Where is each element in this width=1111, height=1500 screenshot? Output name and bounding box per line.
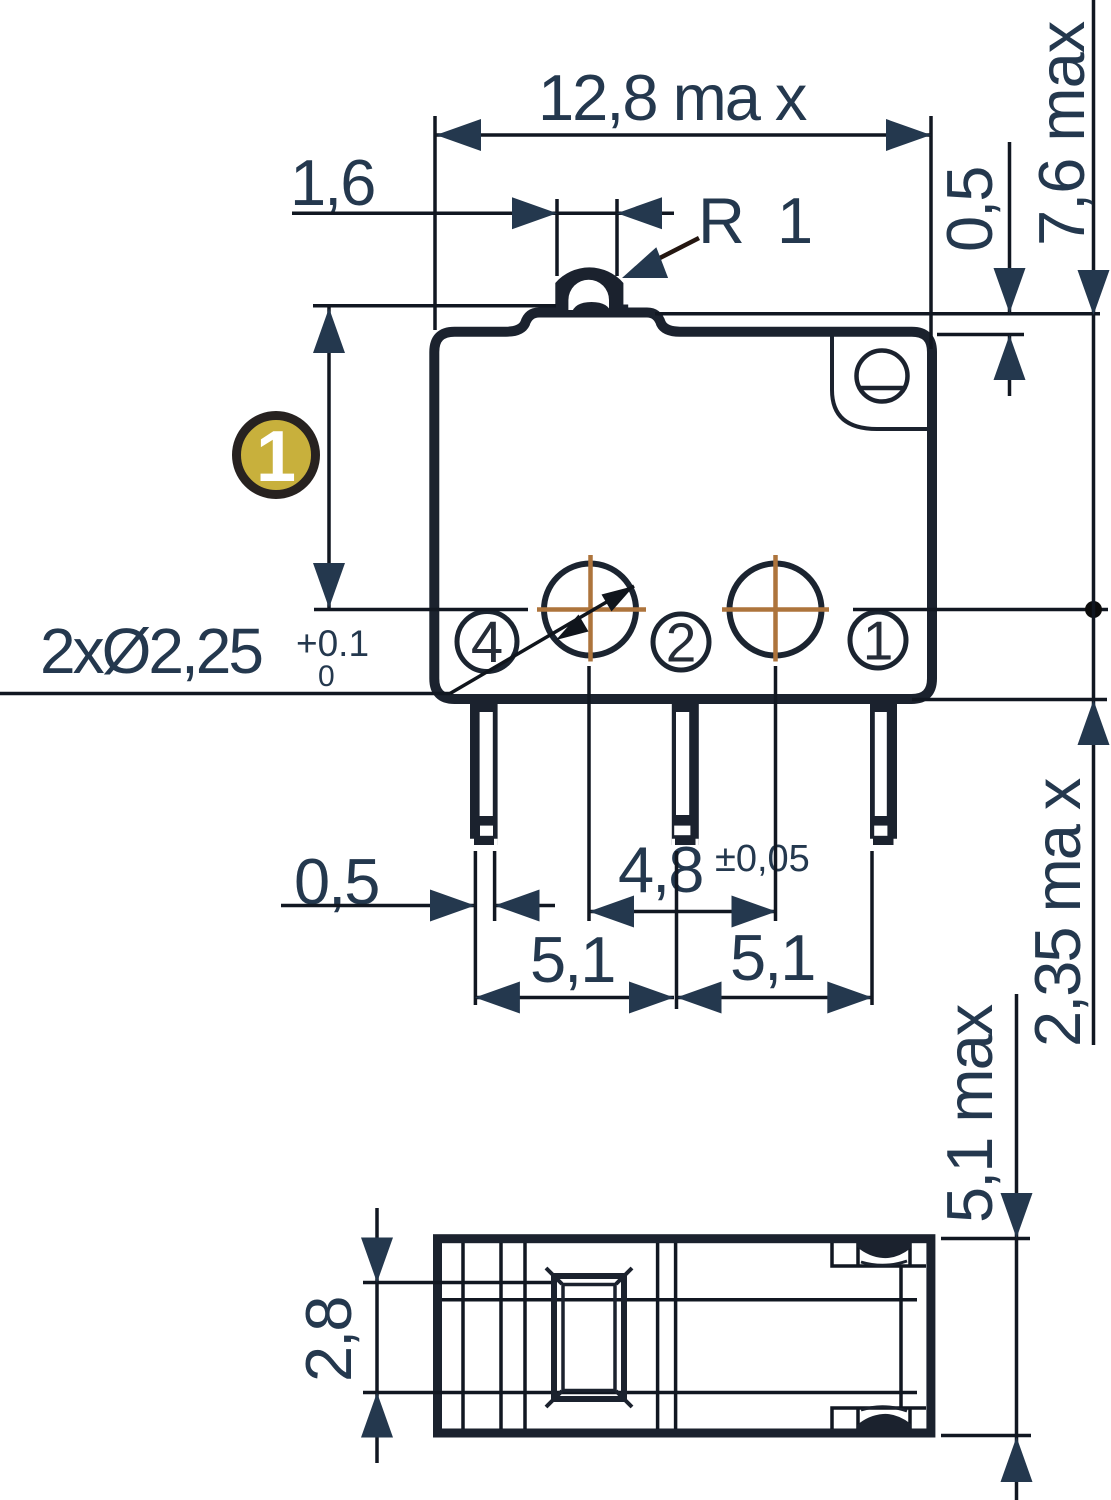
dimension 5,1 max (side view height) [933,994,1033,1500]
node dot on right centre line [1085,601,1102,618]
svg-text:2,35 ma x: 2,35 ma x [1021,778,1094,1047]
dimension 5,1 (left terminal pitch) [475,923,674,1014]
dimension 4,8 ±0,05 (hole spacing) [589,666,810,928]
terminal pin 3 (right) [870,699,897,845]
side view body outline (bottom view) [438,1239,931,1433]
svg-text:12,8 ma x: 12,8 ma x [538,61,807,134]
diameter leader arrow through left hole [450,586,634,694]
svg-text:1: 1 [863,610,894,672]
label R 1 with leader arrow to plunger radius [622,184,820,278]
dimension 7,6 max / 2,35 max (right vertical line) [1021,0,1110,1047]
svg-text:5,1: 5,1 [730,921,814,994]
terminal pin 1 (left) [470,699,498,845]
terminal circle 1 [850,610,906,672]
side view right terminal pocket (bottom) [832,1407,926,1433]
mounting hole right with orange crosshair [722,555,829,662]
screw hole detail top right corner [832,336,930,429]
svg-text:0,5: 0,5 [933,168,1006,252]
svg-text:1,6: 1,6 [290,146,374,219]
dimension 1,6 (plunger width) [290,146,674,276]
dimension 0,5 (terminal thickness, below front view) [281,845,555,1005]
label 2xO2,25 +0.1/0 [0,615,450,694]
svg-text:2xØ2,25: 2xØ2,25 [40,615,261,687]
terminal circle 2 [653,612,709,674]
terminal pin 2 (middle) [672,699,699,845]
hole centre line (left segment) [314,608,528,612]
svg-text:+0.1: +0.1 [296,623,369,664]
dimension 5,1 (right terminal pitch) [677,851,873,1014]
svg-text:5,1: 5,1 [530,923,614,996]
svg-text:2,8: 2,8 [292,1298,365,1382]
svg-text:1: 1 [256,417,296,497]
svg-text:2: 2 [666,612,697,674]
dimension 2,8 (side view plunger width) [292,1208,393,1463]
plunger button on top of body [551,267,629,314]
hole centre line (right segment) [853,608,1108,612]
body bottom extension line (right) [912,698,1107,702]
side view right inner vertical [899,1266,903,1408]
svg-text:7,6 max: 7,6 max [1025,21,1098,246]
side view right terminal pocket (top) [832,1240,926,1267]
svg-text:4,8: 4,8 [618,833,702,906]
side view plunger window [546,1268,632,1407]
svg-text:5,1 max: 5,1 max [933,1004,1006,1223]
switch body outline (front view) [434,313,932,700]
svg-text:R 1: R 1 [698,184,820,257]
dimension 0,5 (top right, plunger step) [655,142,1100,396]
terminal circle 4 [457,610,517,675]
svg-text:±0,05: ±0,05 [715,838,810,880]
side view internal horizontal lines [363,1283,917,1393]
left vertical dimension with callout badge 1 [313,306,556,609]
side view internal vertical lines [463,1243,676,1429]
mounting hole left with orange crosshair [537,555,646,662]
callout badge 1 (yellow circle) [237,416,316,498]
svg-text:0: 0 [318,660,335,693]
dimension 12,8 max (top width) [435,61,931,349]
